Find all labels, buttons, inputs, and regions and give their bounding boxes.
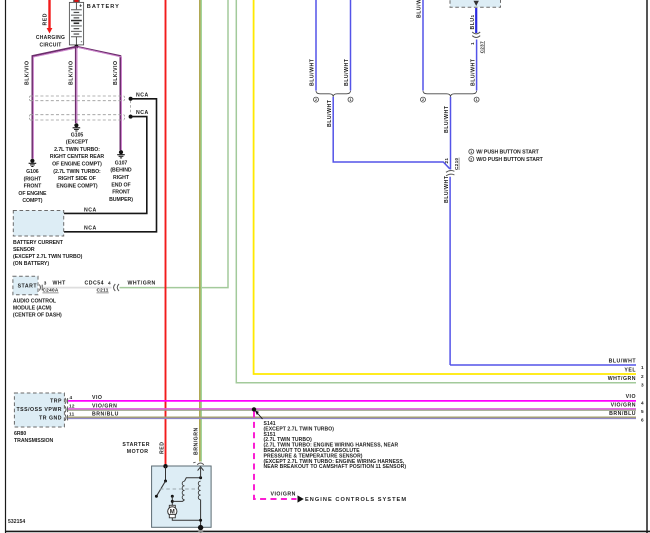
svg-text:MODULE (ACM): MODULE (ACM) bbox=[13, 306, 52, 312]
option circle 2 bbox=[421, 97, 426, 102]
motor M bbox=[169, 505, 175, 508]
svg-text:ENGINE COMPT): ENGINE COMPT) bbox=[56, 183, 97, 189]
svg-text:AUDIO CONTROL: AUDIO CONTROL bbox=[13, 299, 57, 305]
svg-text:BUMPER): BUMPER) bbox=[109, 197, 133, 203]
svg-text:WHT/GRN: WHT/GRN bbox=[608, 376, 636, 382]
svg-text:(ON BATTERY): (ON BATTERY) bbox=[13, 261, 49, 267]
brace merge right bbox=[423, 91, 477, 97]
svg-text:BLK/VIO: BLK/VIO bbox=[113, 60, 119, 85]
svg-text:1: 1 bbox=[350, 98, 352, 102]
wire WHT/GRN (to pin 3) bbox=[236, 0, 636, 383]
svg-text:2: 2 bbox=[470, 158, 472, 162]
note push button start bbox=[469, 149, 474, 154]
wire NCA upper (crosses to lower sensor pin) bbox=[64, 99, 157, 232]
svg-text:BLU/WHT: BLU/WHT bbox=[344, 58, 350, 86]
svg-text:FRONT: FRONT bbox=[24, 184, 42, 190]
junction node below battery bbox=[74, 45, 78, 49]
svg-text:BLU/WHT: BLU/WHT bbox=[327, 99, 333, 127]
svg-text:BLK/VIO: BLK/VIO bbox=[69, 60, 75, 85]
battery current sensor bbox=[13, 211, 63, 237]
ground G107 bbox=[117, 150, 125, 158]
connector at TRP bbox=[65, 398, 66, 404]
connector at TSS/OSS VPWR bbox=[65, 406, 66, 412]
svg-text:BATTERY: BATTERY bbox=[87, 4, 120, 10]
svg-text:532154: 532154 bbox=[8, 519, 25, 525]
svg-text:(EXCEPT 2.7L TWIN TURBO): (EXCEPT 2.7L TWIN TURBO) bbox=[13, 254, 83, 260]
svg-text:6: 6 bbox=[641, 417, 644, 422]
svg-text:WHT/GRN: WHT/GRN bbox=[128, 280, 156, 286]
option circle 1 bbox=[348, 97, 353, 102]
wire BLK/VIO right branch bbox=[76, 47, 120, 151]
connector at TR GND bbox=[65, 415, 66, 421]
node battery feed bbox=[163, 464, 167, 468]
svg-text:YEL: YEL bbox=[624, 367, 636, 373]
wire solenoid terminal entry bbox=[198, 467, 204, 471]
svg-text:SENSOR: SENSOR bbox=[13, 247, 35, 253]
connector curl at solenoid terminal bbox=[197, 463, 204, 465]
svg-text:2: 2 bbox=[315, 98, 317, 102]
6R80 transmission bbox=[14, 393, 64, 427]
svg-text:(CENTER OF DASH): (CENTER OF DASH) bbox=[13, 313, 62, 319]
svg-text:W/ PUSH BUTTON START: W/ PUSH BUTTON START bbox=[476, 150, 539, 156]
battery B+ terminal bbox=[73, 0, 75, 2]
svg-text:NCA: NCA bbox=[84, 226, 97, 232]
wire motor to ground bbox=[172, 518, 200, 528]
wire YEL (to pin 2) bbox=[254, 0, 636, 374]
svg-text:RIGHT SIDE OF: RIGHT SIDE OF bbox=[58, 176, 96, 182]
left frame border bbox=[5, 0, 7, 533]
svg-text:WHT: WHT bbox=[53, 280, 67, 286]
svg-text:(RIGHT: (RIGHT bbox=[24, 176, 42, 182]
svg-text:(EXCEPT: (EXCEPT bbox=[66, 140, 89, 146]
svg-text:4: 4 bbox=[108, 280, 111, 285]
svg-text:BLU/WHT: BLU/WHT bbox=[470, 58, 476, 86]
wire BLK/VIO middle branch bbox=[75, 47, 77, 124]
svg-text:2.7L TWIN TURBO:: 2.7L TWIN TURBO: bbox=[54, 147, 100, 153]
svg-text:RED: RED bbox=[159, 442, 165, 454]
svg-text:BLU: BLU bbox=[470, 17, 476, 29]
svg-text:VIO/GRN: VIO/GRN bbox=[271, 491, 296, 497]
option circle 2 bbox=[314, 97, 319, 102]
wire BLK/VIO left branch bbox=[32, 47, 76, 159]
wire BLU/WHT branch d bbox=[476, 40, 478, 91]
svg-text:CHARGING: CHARGING bbox=[36, 35, 65, 41]
svg-text:TR GND: TR GND bbox=[39, 415, 62, 421]
svg-text:21: 21 bbox=[444, 158, 449, 164]
svg-text:RIGHT CENTER REAR: RIGHT CENTER REAR bbox=[50, 154, 105, 160]
svg-text:VIO/GRN: VIO/GRN bbox=[611, 403, 636, 409]
svg-text:G107: G107 bbox=[115, 160, 128, 166]
svg-text:2: 2 bbox=[641, 374, 644, 379]
svg-text:3: 3 bbox=[44, 280, 47, 285]
svg-text:BLU/WHT: BLU/WHT bbox=[444, 105, 450, 133]
svg-text:RIGHT: RIGHT bbox=[113, 175, 130, 181]
svg-text:+: + bbox=[79, 3, 82, 9]
connector C211 bbox=[114, 284, 116, 291]
audio control module (ACM) bbox=[13, 276, 38, 295]
connector C237 bbox=[472, 32, 480, 34]
svg-text:5: 5 bbox=[641, 409, 644, 414]
svg-text:11: 11 bbox=[69, 412, 75, 417]
pull-in coil bbox=[182, 481, 184, 500]
svg-text:BLU/WHT: BLU/WHT bbox=[444, 175, 450, 203]
svg-text:NCA: NCA bbox=[84, 207, 97, 213]
svg-text:TRP: TRP bbox=[50, 398, 62, 404]
switch contact to motor bbox=[171, 495, 174, 498]
svg-text:C211: C211 bbox=[97, 288, 109, 293]
battery bbox=[69, 2, 83, 45]
svg-text:1: 1 bbox=[641, 365, 644, 370]
wire contact to pull-in coil bbox=[172, 500, 184, 502]
wire VIO/GRN to pin 5 bbox=[68, 408, 636, 410]
component box (cut off, top right) bbox=[450, 0, 501, 7]
option circle 1 bbox=[474, 97, 479, 102]
solenoid linkage (dashed) bbox=[160, 488, 199, 490]
svg-text:BLU/WHT: BLU/WHT bbox=[609, 358, 637, 364]
svg-text:BRN/BLU: BRN/BLU bbox=[92, 412, 119, 418]
svg-text:COMPT): COMPT) bbox=[22, 198, 42, 204]
wire BLU from component bbox=[475, 8, 477, 33]
right frame border bbox=[646, 0, 648, 533]
wire RED to charging circuit (arrow) bbox=[48, 0, 50, 29]
svg-text:BRN/GRN: BRN/GRN bbox=[194, 427, 200, 455]
svg-text:1: 1 bbox=[476, 98, 478, 102]
svg-text:CDC54: CDC54 bbox=[85, 280, 105, 286]
node solenoid terminal bbox=[199, 476, 202, 479]
svg-text:BLK/VIO: BLK/VIO bbox=[25, 60, 31, 85]
hold-in coil bbox=[198, 481, 200, 500]
svg-text:3: 3 bbox=[641, 383, 644, 388]
svg-text:BLU/WHT: BLU/WHT bbox=[417, 0, 423, 18]
switch arm bbox=[156, 481, 165, 496]
wire BLU/WHT branch b bbox=[350, 0, 352, 91]
svg-text:1: 1 bbox=[470, 150, 472, 154]
wire BLU/WHT merged left bbox=[333, 97, 450, 169]
svg-text:W/O PUSH BUTTON START: W/O PUSH BUTTON START bbox=[476, 157, 543, 163]
svg-text:VIO: VIO bbox=[92, 395, 102, 401]
wire NCA lower (crosses to upper sensor pin) bbox=[64, 117, 147, 214]
bottom frame border bbox=[5, 530, 650, 532]
wire WHT/GRN from ACM bbox=[120, 0, 229, 288]
node NCA lower bbox=[129, 115, 133, 119]
svg-text:G105: G105 bbox=[71, 132, 84, 138]
wire BLU/WHT branch c bbox=[422, 0, 424, 91]
dashed option region 2 bbox=[29, 115, 124, 120]
svg-text:2: 2 bbox=[422, 98, 424, 102]
svg-text:(BEHIND: (BEHIND bbox=[110, 168, 132, 174]
svg-text:4: 4 bbox=[70, 395, 73, 400]
wire BRN/BLU to pin 6 bbox=[68, 416, 636, 418]
brace merge left bbox=[316, 91, 351, 97]
wire BLU/WHT merged right bbox=[450, 97, 452, 170]
svg-text:END OF: END OF bbox=[111, 182, 130, 188]
svg-text:TRANSMISSION: TRANSMISSION bbox=[14, 438, 53, 444]
svg-text:BRN/BLU: BRN/BLU bbox=[609, 411, 636, 417]
svg-text:VIO: VIO bbox=[626, 394, 636, 400]
svg-text:CIRCUIT: CIRCUIT bbox=[39, 42, 61, 48]
svg-text:START: START bbox=[18, 284, 38, 290]
connector C240A at ACM bbox=[39, 285, 40, 291]
ground G106 bbox=[29, 159, 37, 167]
node NCA upper bbox=[129, 97, 133, 101]
svg-text:NCA: NCA bbox=[136, 92, 149, 98]
svg-text:C210: C210 bbox=[454, 158, 459, 170]
wire BLU/WHT below C210 bbox=[449, 177, 451, 365]
svg-text:RED: RED bbox=[43, 13, 49, 25]
wire VIO to pin 4 bbox=[68, 400, 636, 402]
arrow to engine controls system bbox=[298, 495, 304, 502]
dashed option region 1 bbox=[29, 96, 124, 101]
ground G105 bbox=[73, 123, 81, 131]
svg-text:(2.7L TWIN TURBO:: (2.7L TWIN TURBO: bbox=[53, 169, 101, 175]
dashed link between NCA nodes bbox=[130, 101, 132, 116]
svg-text:BLU/WHT: BLU/WHT bbox=[310, 58, 316, 86]
leader to S141 bbox=[256, 412, 263, 420]
wire RED (battery feed to starter) bbox=[165, 0, 167, 466]
wire BLU/WHT to pin 1 bbox=[450, 364, 636, 366]
wire WHT bbox=[43, 287, 112, 289]
svg-text:NCA: NCA bbox=[136, 110, 149, 116]
svg-text:MOTOR: MOTOR bbox=[127, 449, 149, 455]
wire BLU/WHT branch a bbox=[315, 0, 317, 91]
svg-text:OF ENGINE: OF ENGINE bbox=[18, 191, 47, 197]
svg-text:OF ENGINE COMPT): OF ENGINE COMPT) bbox=[52, 162, 102, 168]
svg-text:VIO/GRN: VIO/GRN bbox=[92, 403, 117, 409]
svg-text:C237: C237 bbox=[480, 41, 485, 53]
svg-text:NEAR BREAKOUT TO CAMSHAFT POSI: NEAR BREAKOUT TO CAMSHAFT POSITION 11 SE… bbox=[264, 464, 407, 470]
svg-text:G106: G106 bbox=[26, 169, 39, 175]
svg-text:12: 12 bbox=[69, 403, 75, 408]
svg-text:4: 4 bbox=[641, 401, 644, 406]
svg-text:ENGINE CONTROLS SYSTEM: ENGINE CONTROLS SYSTEM bbox=[305, 497, 407, 503]
svg-text:6R80: 6R80 bbox=[14, 431, 26, 437]
svg-text:1: 1 bbox=[470, 42, 475, 45]
wire VIO/GRN dashed to engine controls bbox=[254, 412, 297, 500]
ground at starter case bbox=[198, 525, 203, 530]
svg-text:BATTERY CURRENT: BATTERY CURRENT bbox=[13, 240, 64, 246]
svg-text:FRONT: FRONT bbox=[112, 190, 130, 196]
svg-text:TSS/OSS VPWR: TSS/OSS VPWR bbox=[17, 407, 63, 413]
splice S141 node bbox=[252, 407, 256, 411]
svg-text:1: 1 bbox=[470, 15, 475, 18]
connector C210 bbox=[446, 171, 454, 173]
wire BRN/GRN (ignition to starter solenoid) bbox=[199, 0, 201, 462]
svg-text:STARTER: STARTER bbox=[122, 442, 150, 448]
starter motor bbox=[152, 466, 212, 527]
wire to switch pivot bbox=[165, 466, 167, 481]
